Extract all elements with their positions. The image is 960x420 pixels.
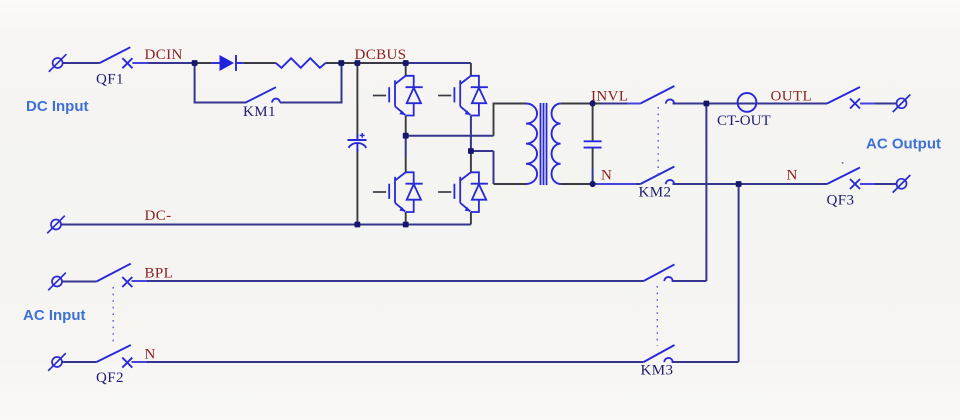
- svg-text:DCBUS: DCBUS: [355, 47, 407, 63]
- svg-text:N: N: [145, 347, 156, 363]
- svg-text:QF2: QF2: [96, 370, 124, 386]
- svg-text:CT-OUT: CT-OUT: [717, 113, 771, 129]
- svg-text:DC Input: DC Input: [26, 98, 88, 115]
- svg-text:DCIN: DCIN: [145, 47, 183, 63]
- svg-text:N: N: [787, 168, 798, 184]
- svg-text:KM1: KM1: [243, 104, 276, 120]
- svg-text:KM2: KM2: [639, 185, 672, 201]
- svg-text:QF3: QF3: [827, 192, 855, 208]
- svg-text:N: N: [601, 168, 612, 184]
- svg-text:KM3: KM3: [641, 363, 674, 379]
- svg-text:AC Input: AC Input: [23, 307, 85, 324]
- svg-text:AC Output: AC Output: [866, 135, 941, 152]
- svg-text:DC-: DC-: [145, 208, 172, 224]
- svg-text:QF1: QF1: [96, 72, 124, 88]
- svg-text:INVL: INVL: [591, 89, 628, 105]
- svg-text:OUTL: OUTL: [771, 89, 813, 105]
- svg-text:BPL: BPL: [145, 266, 174, 282]
